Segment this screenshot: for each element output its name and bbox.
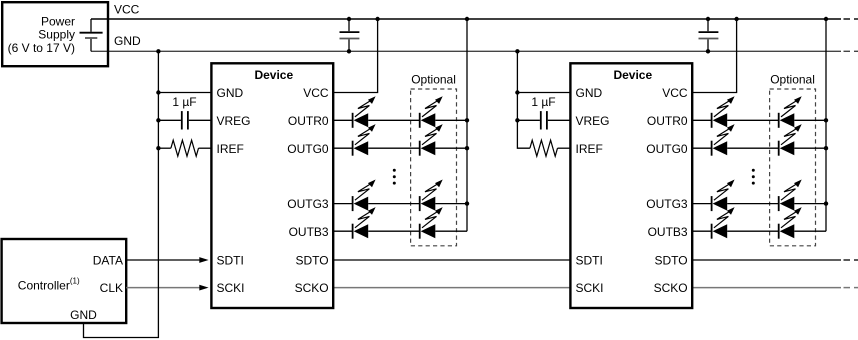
LED D8 (optional) bbox=[420, 207, 443, 239]
svg-text:DATA: DATA bbox=[93, 254, 123, 268]
junction GND rail / C4 bbox=[706, 49, 710, 53]
svg-text:Supply: Supply bbox=[38, 28, 75, 42]
wire U1 VCC pin riser bbox=[333, 19, 377, 93]
svg-text:IREF: IREF bbox=[576, 142, 603, 156]
ellipsis more output channels group 2 bbox=[752, 169, 755, 185]
ellipsis more output channels group 1 bbox=[393, 169, 396, 185]
svg-text:(1): (1) bbox=[70, 277, 80, 286]
wire D10 anode to VCC bus bbox=[794, 119, 826, 121]
svg-text:SCKO: SCKO bbox=[295, 281, 329, 295]
wire U2 GND pin bbox=[517, 92, 570, 94]
power supply PS1 bbox=[2, 2, 108, 66]
controller (1) bbox=[2, 239, 127, 323]
LED D2 (optional) bbox=[420, 96, 443, 128]
svg-text:Device: Device bbox=[613, 68, 652, 82]
svg-text:GND: GND bbox=[114, 34, 141, 48]
svg-text:SCKO: SCKO bbox=[654, 281, 688, 295]
wire D1 anode to D2 cathode bbox=[368, 119, 420, 121]
junction U2 GND pin / ground bus bbox=[515, 90, 519, 94]
LED D14 (optional) bbox=[779, 180, 802, 212]
LED D13 bbox=[712, 180, 735, 212]
wire U2 VCC pin riser bbox=[692, 19, 736, 93]
junction GND rail / U1 ground bus bbox=[156, 49, 160, 53]
svg-text:VCC: VCC bbox=[662, 86, 688, 100]
LED D5 bbox=[353, 180, 376, 212]
junction anode bus 2 row bbox=[824, 146, 828, 150]
LED D7 bbox=[353, 207, 376, 239]
resistor R2 on IREF bbox=[530, 140, 571, 156]
LED D16 (optional) bbox=[779, 207, 802, 239]
svg-text:Optional: Optional bbox=[411, 73, 456, 87]
junction VCC rail / U1 riser bbox=[375, 17, 379, 21]
wire D14 anode to VCC bus bbox=[794, 203, 826, 205]
device U1 bbox=[211, 63, 333, 308]
LED D15 bbox=[712, 207, 735, 239]
svg-text:SDTI: SDTI bbox=[217, 254, 244, 268]
svg-text:OUTB3: OUTB3 bbox=[648, 225, 688, 239]
junction VCC rail / C2 bbox=[347, 17, 351, 21]
junction U1 IREF / ground bus bbox=[156, 146, 160, 150]
wire U1 OUTR0 to LED D1 bbox=[333, 119, 352, 121]
svg-text:VREG: VREG bbox=[217, 114, 251, 128]
wire CLK to U1 SCKI bbox=[126, 285, 208, 291]
wire U2 SCKO continuation bbox=[692, 287, 858, 289]
svg-text:OUTR0: OUTR0 bbox=[288, 114, 329, 128]
junction VCC rail / anode bus 2 bbox=[824, 17, 828, 21]
wire D7 anode to D8 cathode bbox=[368, 230, 420, 232]
junction GND rail / U2 ground bus bbox=[515, 49, 519, 53]
optional box group 2 bbox=[770, 89, 816, 246]
wire D5 anode to D6 cathode bbox=[368, 203, 420, 205]
LED D9 bbox=[712, 96, 735, 128]
LED D1 bbox=[353, 96, 376, 128]
svg-text:(6 V to 17 V): (6 V to 17 V) bbox=[8, 41, 75, 55]
wire U1 OUTG3 to LED D5 bbox=[333, 203, 352, 205]
wire U1 OUTB3 to LED D7 bbox=[333, 230, 352, 232]
wire D4 anode to VCC bus bbox=[435, 147, 467, 149]
svg-text:SDTI: SDTI bbox=[576, 254, 603, 268]
junction anode bus 2 row bbox=[824, 118, 828, 122]
wire D2 anode to VCC bus bbox=[435, 119, 467, 121]
device U2 bbox=[570, 63, 692, 308]
wire D15 anode to D16 cathode bbox=[727, 230, 779, 232]
svg-text:Controller: Controller bbox=[18, 279, 70, 293]
wire U2 SDTO continuation bbox=[692, 259, 858, 261]
wire LED anode VCC bus group 2 bbox=[825, 19, 827, 231]
junction U1 GND pin / ground bus bbox=[156, 90, 160, 94]
svg-text:Power: Power bbox=[41, 14, 75, 28]
optional box group 1 bbox=[411, 89, 457, 246]
LED D11 bbox=[712, 124, 735, 156]
junction anode bus 1 row bbox=[465, 146, 469, 150]
wire U1 GND pin bbox=[158, 92, 211, 94]
svg-text:Optional: Optional bbox=[770, 73, 815, 87]
battery B1 (supply source symbol) bbox=[80, 19, 103, 51]
svg-text:GND: GND bbox=[70, 308, 97, 322]
junction U1 VREG / ground bus bbox=[156, 118, 160, 122]
svg-text:SCKI: SCKI bbox=[576, 281, 604, 295]
svg-text:OUTG0: OUTG0 bbox=[287, 142, 329, 156]
LED D3 bbox=[353, 124, 376, 156]
wire U2 OUTG3 to LED D13 bbox=[692, 203, 711, 205]
svg-text:CLK: CLK bbox=[100, 281, 123, 295]
svg-text:OUTG0: OUTG0 bbox=[646, 142, 688, 156]
junction anode bus 2 row bbox=[824, 201, 828, 205]
wire GND rail bbox=[91, 50, 858, 52]
LED D12 (optional) bbox=[779, 124, 802, 156]
svg-text:OUTR0: OUTR0 bbox=[647, 114, 688, 128]
LED D4 (optional) bbox=[420, 124, 443, 156]
svg-text:SDTO: SDTO bbox=[295, 254, 328, 268]
wire U2 ground bus vertical bbox=[517, 51, 530, 148]
capacitor C2 bypass on rails bbox=[340, 19, 360, 51]
wire DATA to U1 SDTI bbox=[126, 257, 208, 263]
svg-text:OUTB3: OUTB3 bbox=[289, 225, 329, 239]
svg-text:SCKI: SCKI bbox=[217, 281, 245, 295]
svg-text:VCC: VCC bbox=[303, 86, 329, 100]
wire D12 anode to VCC bus bbox=[794, 147, 826, 149]
svg-text:VCC: VCC bbox=[114, 3, 140, 17]
wire D6 anode to VCC bus bbox=[435, 203, 467, 205]
svg-text:SDTO: SDTO bbox=[654, 254, 687, 268]
wire D8 anode to VCC bus bbox=[435, 230, 467, 232]
wire U1 SCKO to U2 SCKI bbox=[333, 287, 570, 289]
junction anode bus 1 row bbox=[465, 118, 469, 122]
capacitor C3 1 uF on VREG bbox=[517, 111, 570, 129]
junction anode bus 1 row bbox=[465, 201, 469, 205]
svg-text:IREF: IREF bbox=[217, 142, 244, 156]
wire D11 anode to D12 cathode bbox=[727, 147, 779, 149]
svg-text:1 µF: 1 µF bbox=[531, 95, 555, 109]
capacitor C1 1 uF on VREG bbox=[158, 111, 211, 129]
svg-text:Device: Device bbox=[254, 68, 293, 82]
LED D6 (optional) bbox=[420, 180, 443, 212]
resistor R1 on IREF bbox=[158, 140, 211, 156]
junction VCC rail / U2 riser bbox=[734, 17, 738, 21]
LED D10 (optional) bbox=[779, 96, 802, 128]
svg-text:OUTG3: OUTG3 bbox=[646, 197, 688, 211]
junction GND rail / C2 bbox=[347, 49, 351, 53]
wire U2 OUTB3 to LED D15 bbox=[692, 230, 711, 232]
wire U1 SDTO to U2 SDTI bbox=[333, 259, 570, 261]
wire D9 anode to D10 cathode bbox=[727, 119, 779, 121]
junction VCC rail / anode bus 1 bbox=[465, 17, 469, 21]
capacitor C4 bypass on rails bbox=[699, 19, 719, 51]
wire D13 anode to D14 cathode bbox=[727, 203, 779, 205]
wire U2 OUTG0 to LED D11 bbox=[692, 147, 711, 149]
svg-text:OUTG3: OUTG3 bbox=[287, 197, 329, 211]
svg-text:GND: GND bbox=[217, 86, 244, 100]
wire U1 OUTG0 to LED D3 bbox=[333, 147, 352, 149]
junction VCC rail / C4 bbox=[706, 17, 710, 21]
svg-text:VREG: VREG bbox=[576, 114, 610, 128]
svg-text:GND: GND bbox=[576, 86, 603, 100]
wire LED anode VCC bus group 1 bbox=[466, 19, 468, 231]
wire D3 anode to D4 cathode bbox=[368, 147, 420, 149]
wire U2 OUTR0 to LED D9 bbox=[692, 119, 711, 121]
wire VCC rail bbox=[91, 18, 858, 20]
wire controller GND to GND rail bbox=[84, 51, 159, 337]
svg-text:1 µF: 1 µF bbox=[172, 95, 196, 109]
junction U2 VREG / ground bus bbox=[515, 118, 519, 122]
wire D16 anode to VCC bus bbox=[794, 230, 826, 232]
